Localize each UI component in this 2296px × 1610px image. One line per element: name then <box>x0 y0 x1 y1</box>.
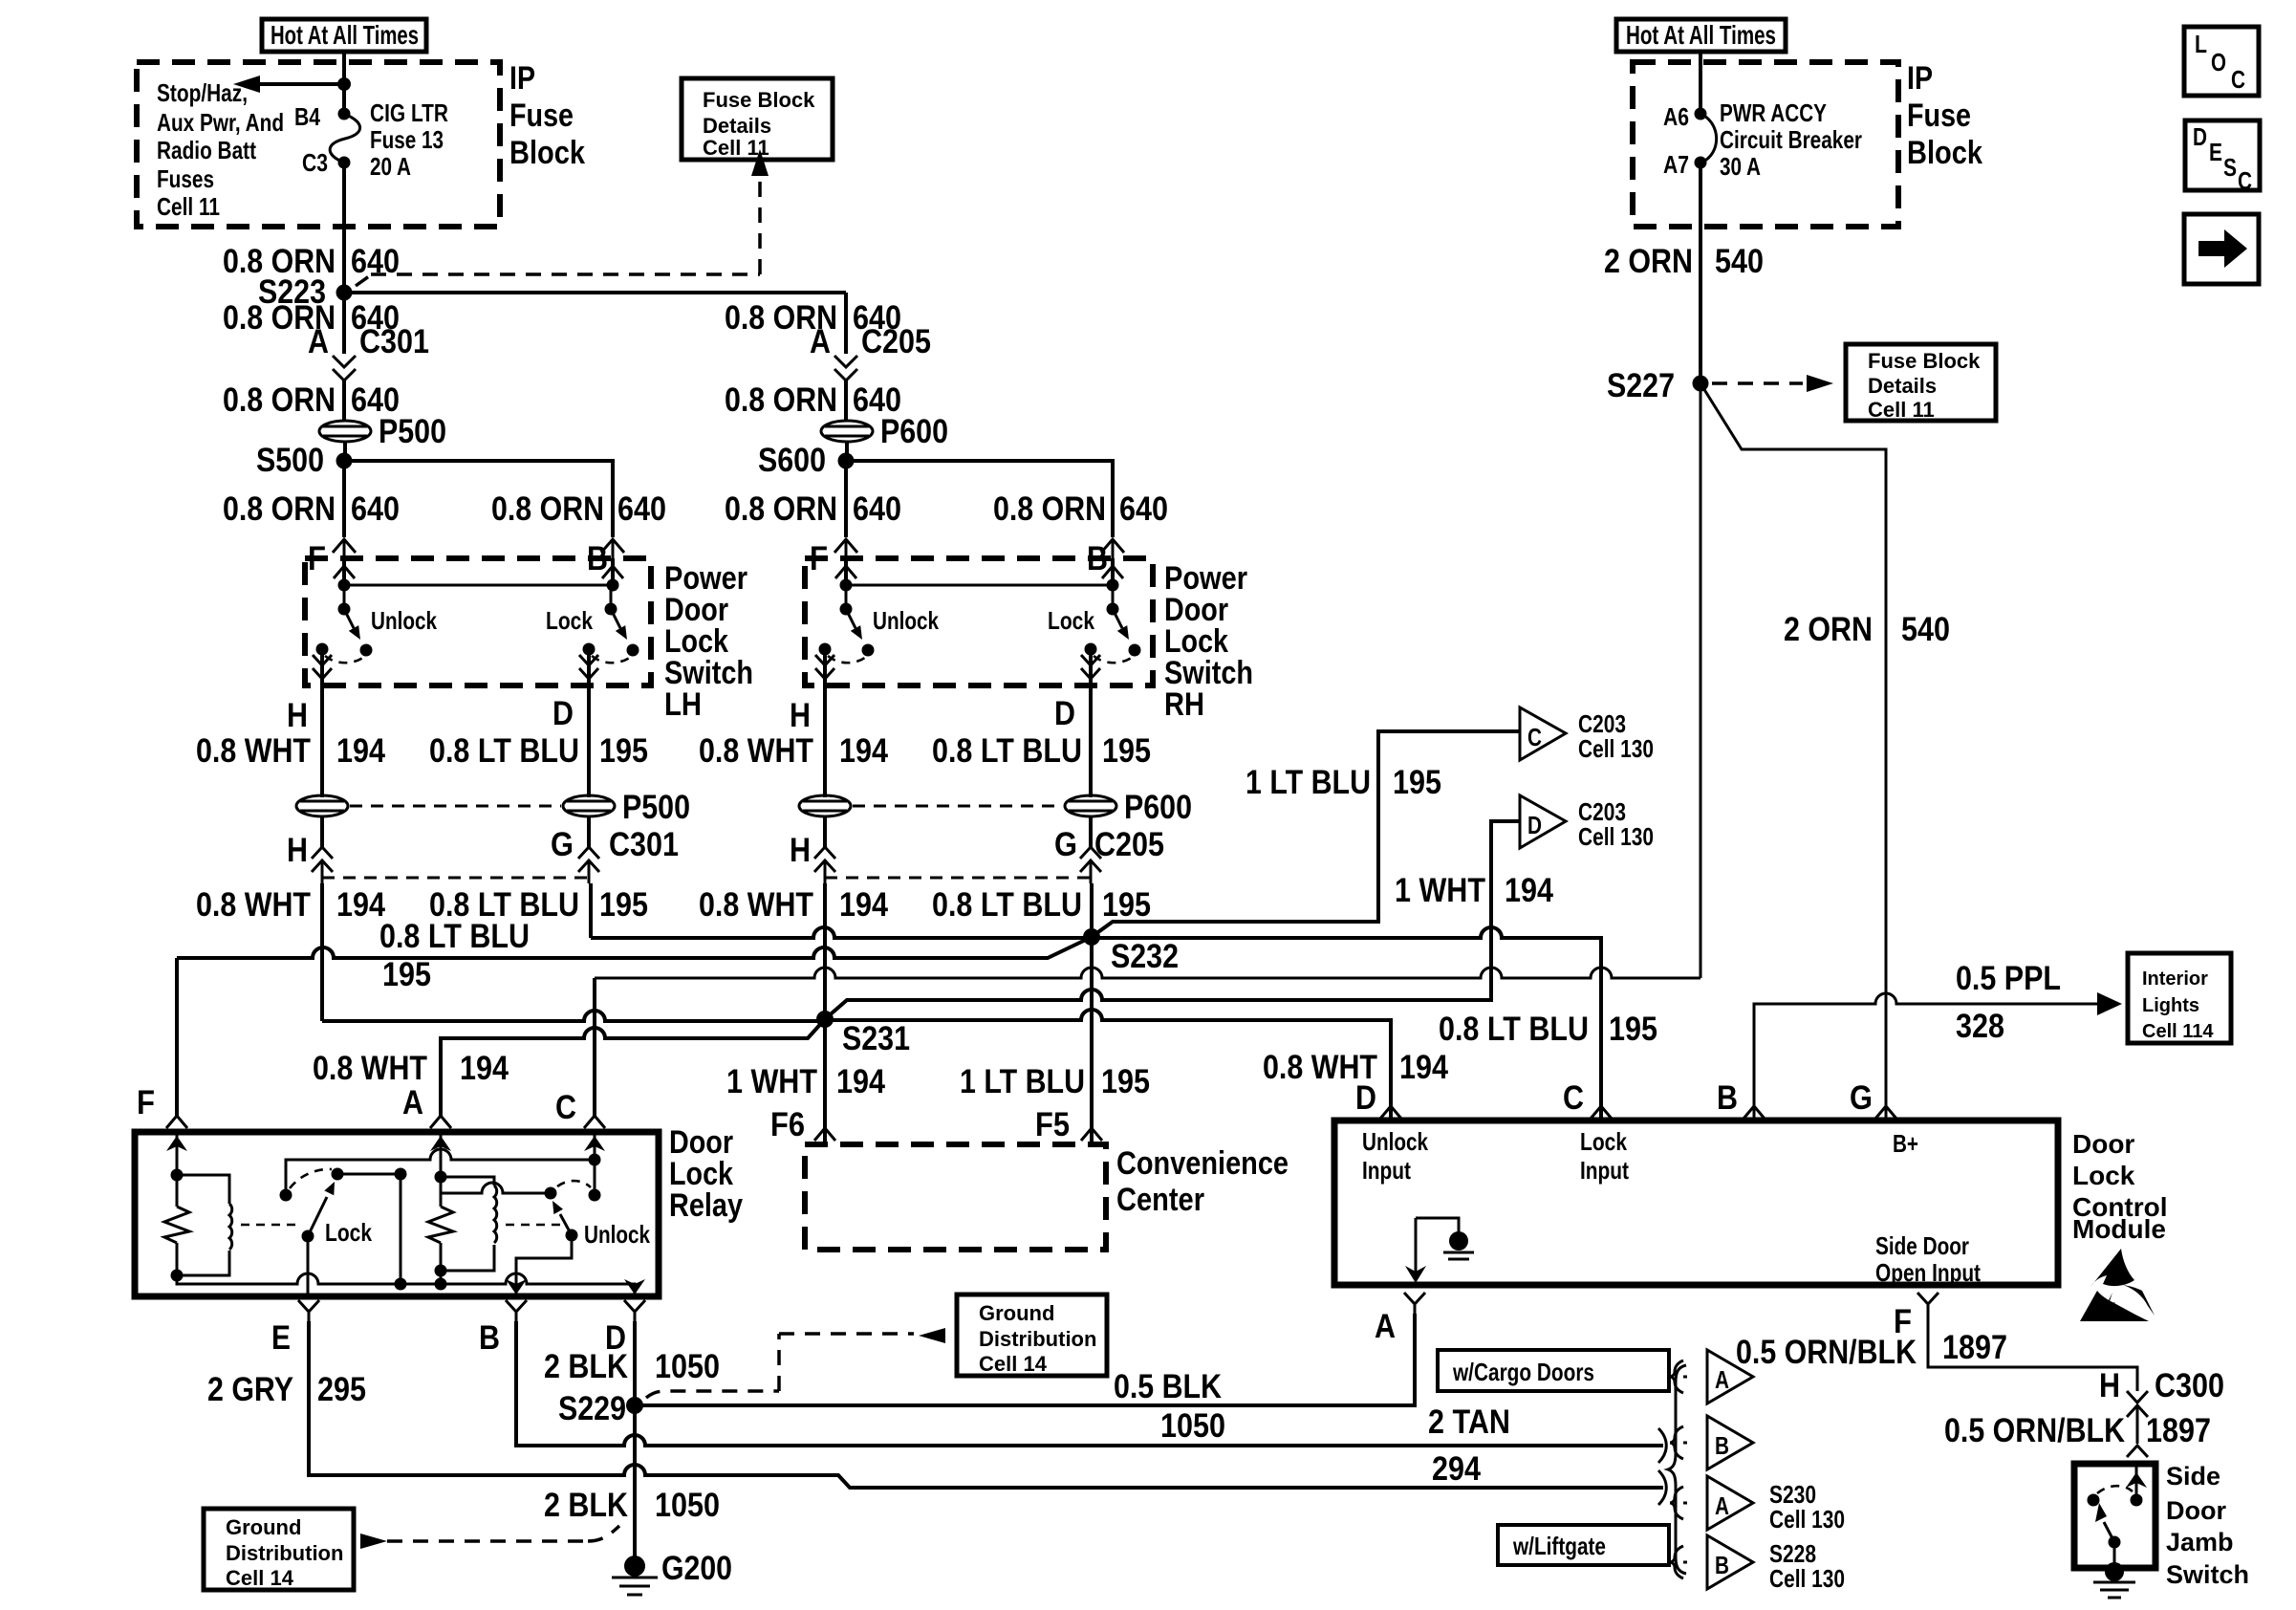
svg-text:0.5 ORN/BLK: 0.5 ORN/BLK <box>1736 1334 1917 1371</box>
svg-text:20 A: 20 A <box>370 152 411 181</box>
svg-text:Cell 130: Cell 130 <box>1578 822 1654 851</box>
svg-text:C: C <box>2238 166 2252 195</box>
dashed box: Power Door Lock Switch LH <box>305 558 651 685</box>
svg-text:Aux Pwr, And: Aux Pwr, And <box>157 108 284 137</box>
svg-text:0.5 PPL: 0.5 PPL <box>1956 960 2061 997</box>
chevron into LH switch B <box>601 539 624 558</box>
svg-text:Lock: Lock <box>546 606 593 635</box>
svg-text:Fuse: Fuse <box>1907 98 1971 134</box>
grommet P600 (main orange wire) <box>821 413 948 450</box>
relay pin A internal arrow and unlock coil <box>428 1132 497 1291</box>
svg-text:A: A <box>810 323 831 360</box>
svg-text:Distribution: Distribution <box>226 1541 343 1565</box>
svg-text:Fuse 13: Fuse 13 <box>370 125 444 154</box>
svg-text:B: B <box>479 1319 500 1357</box>
svg-text:Block: Block <box>1907 135 1982 171</box>
big brace <box>1668 1365 1686 1574</box>
label: 1 WHT 194 (D triangle feed) <box>1395 872 1553 909</box>
wire: S500 east to B leg <box>344 461 613 537</box>
svg-text:194: 194 <box>1399 1049 1448 1086</box>
label: Power Door Lock Switch LH <box>664 560 753 723</box>
svg-text:0.8 LT BLU: 0.8 LT BLU <box>932 886 1082 924</box>
label: 2 ORN 540 (above S227) <box>1604 243 1764 280</box>
chevron into module C <box>1591 1106 1612 1119</box>
relay unlock switch <box>442 1181 601 1296</box>
chevron into jamb switch <box>2127 1446 2148 1457</box>
wire: relay F drop <box>175 958 179 1117</box>
wire: breaker A7 down to S227 <box>1699 163 1702 383</box>
switch unlock RH <box>819 585 875 663</box>
svg-text:D: D <box>1054 695 1075 732</box>
svg-text:195: 195 <box>1102 886 1151 924</box>
svg-text:P600: P600 <box>880 413 948 450</box>
label row2: 0.8 LT BLU 195 (RH D) <box>932 886 1151 924</box>
svg-text:L: L <box>2195 30 2207 58</box>
triangle connector D (C203 Cell 130) <box>1520 795 1654 851</box>
svg-text:Fuse Block: Fuse Block <box>1868 349 1981 373</box>
svg-text:Lock: Lock <box>325 1218 372 1247</box>
svg-text:IP: IP <box>509 60 535 97</box>
svg-text:2 GRY: 2 GRY <box>207 1371 293 1408</box>
svg-text:A: A <box>402 1084 423 1121</box>
svg-text:Unlock: Unlock <box>371 606 437 635</box>
svg-text:0.8 WHT: 0.8 WHT <box>196 886 311 924</box>
chevron into convenience center F5 <box>1081 1128 1102 1141</box>
svg-text:194: 194 <box>836 1063 885 1100</box>
relay lock switch <box>280 1149 590 1291</box>
wire: C301 to P500 <box>342 381 346 421</box>
chevron into LH switch F <box>333 539 356 558</box>
label: 0.8 LT BLU 195 (module C feed) <box>1439 1011 1657 1048</box>
box: Ground Distribution Cell 14 (bottom left) <box>204 1509 354 1590</box>
dashed separator C205 <box>825 877 1091 880</box>
svg-text:30 A: 30 A <box>1720 152 1761 181</box>
wire L1: LH lock output to S232 (0.8 LT BLU 195) <box>591 927 1092 938</box>
svg-text:Unlock: Unlock <box>873 606 939 635</box>
chevron below relay D <box>624 1300 645 1321</box>
svg-text:P600: P600 <box>1124 789 1192 826</box>
wire L6: S231 to D triangle (1 WHT 194) <box>825 821 1520 1019</box>
svg-text:Open Input: Open Input <box>1875 1258 1981 1287</box>
wire: P600 to S600 <box>845 442 849 461</box>
chevron into module B <box>1744 1106 1765 1119</box>
label row2: 0.8 WHT 194 (LH H) <box>196 886 385 924</box>
box: DESC legend <box>2185 120 2260 195</box>
svg-text:328: 328 <box>1956 1008 2004 1045</box>
svg-text:G: G <box>1850 1079 1873 1117</box>
svg-text:H: H <box>2099 1367 2120 1404</box>
svg-text:B: B <box>1715 1431 1729 1460</box>
grommet P500 pair on H and D <box>296 789 690 826</box>
wire: S227 down (2 ORN to relay C) <box>1700 383 1702 978</box>
box: Side Door Jamb Switch <box>2074 1464 2155 1568</box>
svg-text:Fuses: Fuses <box>157 164 214 193</box>
svg-text:A6: A6 <box>1663 102 1689 131</box>
wire: Hot At All Times down to fuse B4 <box>342 52 346 114</box>
wire: RH H down through S231 to convenience center F6 <box>823 883 827 1144</box>
label: 0.8 ORN 640 (above C301) <box>223 299 400 337</box>
svg-text:Ground: Ground <box>979 1301 1054 1325</box>
label: Convenience Center <box>1116 1145 1289 1218</box>
connector C300 <box>2099 1367 2224 1444</box>
wire: LH D exit (lock output) <box>579 649 598 712</box>
wire: relay E output (2 GRY 295) <box>309 1321 1663 1488</box>
label: 0.8 ORN 640 (F leg) <box>223 490 400 528</box>
svg-text:IP: IP <box>1907 60 1933 97</box>
label: 0.8 ORN 640 (above S223) <box>223 243 400 280</box>
svg-text:Door: Door <box>2072 1129 2134 1159</box>
relay pin F internal arrow and lock coil <box>164 1132 232 1282</box>
svg-text:C: C <box>1527 723 1542 751</box>
svg-text:2 ORN: 2 ORN <box>1604 243 1693 280</box>
wire: fuse C3 down out of fuse block to S223 <box>342 163 346 293</box>
svg-text:A: A <box>1715 1365 1729 1394</box>
relay pin C internal: junction dots on 1213 wire <box>584 1132 605 1195</box>
svg-text:Side Door: Side Door <box>1875 1231 1969 1260</box>
node S500 <box>256 442 353 479</box>
svg-text:Details: Details <box>1868 374 1937 398</box>
svg-text:H: H <box>790 832 811 869</box>
wire: LH D down to P500 grommet <box>587 712 591 797</box>
wire: corner down to C205 <box>844 293 848 354</box>
label: Door Lock Control Module <box>2072 1129 2168 1244</box>
svg-text:C205: C205 <box>861 323 931 360</box>
relay pin D internal arrow <box>624 1279 645 1295</box>
svg-text:B: B <box>1715 1551 1729 1579</box>
svg-text:F6: F6 <box>770 1106 805 1143</box>
wire: S231 east to module D corner <box>825 1010 1391 1120</box>
label: 0.8 WHT 194 (relay A feed) <box>313 1050 509 1087</box>
svg-text:0.8 WHT: 0.8 WHT <box>699 732 813 770</box>
label: IP Fuse Block (left) <box>509 60 585 171</box>
circuit breaker PWR ACCY 30A <box>1695 108 1717 169</box>
svg-text:194: 194 <box>460 1050 509 1087</box>
svg-text:640: 640 <box>853 490 901 528</box>
svg-text:S500: S500 <box>256 442 324 479</box>
svg-text:Cell 14: Cell 14 <box>979 1352 1048 1376</box>
label: 0.8 ORN 640 (above P500) <box>223 381 400 419</box>
chevron into relay C <box>584 1116 605 1128</box>
svg-text:Circuit Breaker: Circuit Breaker <box>1720 125 1862 154</box>
wire: LH H down to P500 grommet <box>320 712 324 797</box>
svg-text:Cell 130: Cell 130 <box>1769 1505 1845 1534</box>
svg-text:0.8 ORN: 0.8 ORN <box>491 490 604 528</box>
svg-text:C301: C301 <box>359 323 429 360</box>
svg-text:C300: C300 <box>2155 1367 2224 1404</box>
svg-text:294: 294 <box>1432 1450 1481 1488</box>
wire: S227 diagonal branch to module G <box>1700 383 1886 1120</box>
label G C205 <box>1054 826 1164 863</box>
jamb switch internals <box>2088 1464 2148 1598</box>
svg-text:0.8 LT BLU: 0.8 LT BLU <box>1439 1011 1589 1048</box>
triangle connector C (C203 Cell 130) <box>1520 707 1654 763</box>
wire L2: relay F feed (0.8 LT BLU 195) <box>177 937 1092 958</box>
wire L4: relay C to S227 2 ORN line <box>595 968 1700 978</box>
label: 0.8 WHT 194 (module D feed) <box>1263 1049 1448 1086</box>
dashed box: Power Door Lock Switch RH <box>805 558 1153 685</box>
svg-text:C: C <box>1563 1079 1584 1117</box>
label: Side Door Jamb Switch <box>2166 1462 2249 1589</box>
label: IP Fuse Block (right) <box>1907 60 1982 171</box>
svg-text:B: B <box>1717 1079 1738 1117</box>
svg-text:PWR ACCY: PWR ACCY <box>1720 98 1827 127</box>
wire: S223 down to C301 <box>342 293 346 354</box>
box: Hot At All Times (left) <box>262 19 426 52</box>
wire: S223 horizontal to RH branch <box>344 291 846 294</box>
chevron into convenience center F6 <box>814 1128 835 1141</box>
svg-text:Hot At All Times: Hot At All Times <box>1626 20 1776 50</box>
svg-text:CIG LTR: CIG LTR <box>370 98 448 127</box>
node S229 <box>558 1390 643 1427</box>
svg-text:G200: G200 <box>661 1550 732 1587</box>
chevron into RH switch F <box>834 539 857 558</box>
svg-text:Fuse Block: Fuse Block <box>703 88 815 112</box>
svg-text:195: 195 <box>382 956 431 993</box>
svg-text:Lock: Lock <box>1580 1127 1627 1156</box>
wire: S229 east to module A riser (0.5 BLK 1050) <box>635 1314 1415 1405</box>
wire: below P500 to C301 chevrons <box>322 816 589 847</box>
wire: S600 east to B leg <box>846 461 1113 537</box>
box: Fuse Block Details Cell 11 (right) <box>1846 344 1996 422</box>
node S232 <box>1083 928 1179 975</box>
label: 0.8 ORN 640 (B leg) <box>491 490 666 528</box>
svg-text:Cell 14: Cell 14 <box>226 1566 294 1590</box>
wire: S229 down to G200 <box>633 1405 637 1566</box>
switch unlock LH <box>316 585 373 663</box>
chevron below module F <box>1917 1293 1939 1314</box>
svg-text:540: 540 <box>1715 243 1764 280</box>
wire end paren (2 TAN upper) <box>1658 1428 1666 1463</box>
relay pin E drop from lock switch <box>307 1236 310 1296</box>
label row2: 0.8 LT BLU 195 (LH D) <box>429 886 648 924</box>
label row: 0.8 LT BLU 195 (LH D) <box>429 732 648 770</box>
grommet P500 (main orange wire) <box>319 413 446 450</box>
text: Side Door Open Input <box>1875 1231 1981 1287</box>
wire: internal top bus LH <box>338 579 619 592</box>
svg-text:C: C <box>555 1089 576 1126</box>
label: 0.8 ORN 640 (RH F leg) <box>725 490 901 528</box>
svg-text:D: D <box>1355 1079 1376 1117</box>
triangle ref T3 A (S230) <box>1670 1476 1845 1534</box>
wire: RH H down to P600 grommet <box>823 712 827 797</box>
svg-text:C3: C3 <box>302 148 328 177</box>
box: Door Lock Control Module <box>1334 1120 2058 1285</box>
svg-text:S229: S229 <box>558 1390 626 1427</box>
svg-text:195: 195 <box>599 732 648 770</box>
wire: S500 down F leg <box>342 461 346 537</box>
svg-text:A7: A7 <box>1663 150 1689 179</box>
svg-text:C205: C205 <box>1094 826 1164 863</box>
svg-text:0.8 ORN: 0.8 ORN <box>993 490 1106 528</box>
svg-text:195: 195 <box>1393 764 1441 801</box>
wire: S232 east to C203-C riser and module C (0.8 LT BLU) <box>1092 731 1601 1120</box>
relay pin B internal arrow <box>506 1279 527 1295</box>
svg-text:Switch: Switch <box>2166 1560 2249 1589</box>
connector chevrons C301 (H wire) <box>312 847 333 883</box>
svg-text:1 LT BLU: 1 LT BLU <box>960 1063 1085 1100</box>
wire: C205 to P600 <box>844 381 848 421</box>
ground G200 <box>612 1550 732 1595</box>
svg-text:194: 194 <box>336 886 385 924</box>
switch lock LH <box>583 585 639 663</box>
svg-text:2 BLK: 2 BLK <box>544 1348 628 1385</box>
svg-text:1050: 1050 <box>1160 1407 1225 1445</box>
label row2: 0.8 WHT 194 (RH H) <box>699 886 888 924</box>
svg-text:1050: 1050 <box>655 1348 720 1385</box>
svg-text:Lights: Lights <box>2142 995 2199 1016</box>
svg-text:D: D <box>1527 811 1542 839</box>
label: 0.8 ORN 640 (RH B leg) <box>993 490 1168 528</box>
svg-text:640: 640 <box>1119 490 1168 528</box>
dashed box: IP Fuse Block left <box>137 62 500 227</box>
svg-text:0.8 ORN: 0.8 ORN <box>223 490 336 528</box>
box: Hot At All Times (right) <box>1616 19 1786 52</box>
svg-text:0.8 LT BLU: 0.8 LT BLU <box>379 918 530 955</box>
module internal ground <box>1405 1218 1474 1283</box>
connector chevrons C205 (G wire) <box>1080 847 1101 883</box>
wire: LH D down to corner L1 <box>589 883 593 938</box>
svg-text:640: 640 <box>617 490 666 528</box>
svg-text:Unlock: Unlock <box>584 1220 650 1249</box>
dashed reference: ground distribution to G200 wire <box>360 1526 619 1549</box>
wire: RH H exit (unlock output) <box>815 649 834 712</box>
svg-text:1 WHT: 1 WHT <box>726 1063 817 1100</box>
box: Fuse Block Details Cell 11 (top middle) <box>682 78 833 160</box>
wire: LH B entry with arrow <box>602 558 623 585</box>
svg-text:640: 640 <box>351 490 400 528</box>
connector A C301 <box>308 323 429 381</box>
triangle ref T4 B (S228) <box>1670 1535 1845 1593</box>
chevron below module A <box>1404 1293 1425 1314</box>
box: arrow legend <box>2184 214 2259 284</box>
svg-text:0.8 WHT: 0.8 WHT <box>699 886 813 924</box>
svg-text:0.5 ORN/BLK: 0.5 ORN/BLK <box>1944 1412 2125 1449</box>
wire L5: S231 to relay A (0.8 WHT 194) <box>441 1019 825 1117</box>
svg-text:H: H <box>790 697 811 734</box>
chevron into module G <box>1875 1106 1896 1119</box>
node S227 <box>1607 367 1709 404</box>
svg-text:Cell 130: Cell 130 <box>1578 734 1654 763</box>
svg-text:0.8 LT BLU: 0.8 LT BLU <box>429 732 579 770</box>
svg-text:1 LT BLU: 1 LT BLU <box>1245 764 1371 801</box>
dashed linkage lock coil <box>241 1224 302 1227</box>
label: 0.8 ORN 640 (above P600) <box>725 381 901 419</box>
label row: 0.8 WHT 194 (RH H) <box>699 732 888 770</box>
wire: P500 to S500 <box>343 442 347 461</box>
svg-text:w/Cargo Doors: w/Cargo Doors <box>1452 1358 1594 1386</box>
svg-text:A: A <box>1375 1308 1396 1345</box>
wire: LH H exit (unlock output) <box>313 649 332 712</box>
text: PWR ACCY Circuit Breaker 30 A <box>1720 98 1862 181</box>
svg-text:Stop/Haz,: Stop/Haz, <box>157 78 248 107</box>
svg-text:C: C <box>2231 65 2245 94</box>
wire: RH F entry with arrow <box>835 558 856 585</box>
label: 2 GRY 295 <box>207 1371 366 1408</box>
svg-text:194: 194 <box>336 732 385 770</box>
svg-text:Cell 11: Cell 11 <box>703 136 769 160</box>
svg-text:1897: 1897 <box>2146 1412 2211 1449</box>
svg-text:194: 194 <box>1505 872 1553 909</box>
label: 2 BLK 1050 (lower) <box>544 1487 720 1524</box>
svg-text:D: D <box>552 695 574 732</box>
label: 1 LT BLU 195 (C triangle feed) <box>1245 764 1441 801</box>
svg-text:Unlock: Unlock <box>1362 1127 1428 1156</box>
dashed box: IP Fuse Block right <box>1633 62 1898 227</box>
wire: RH D exit (lock output) <box>1081 649 1100 712</box>
svg-text:E: E <box>2209 138 2222 166</box>
svg-text:1 WHT: 1 WHT <box>1395 872 1485 909</box>
svg-text:A: A <box>308 323 329 360</box>
svg-text:P500: P500 <box>379 413 446 450</box>
svg-text:E: E <box>271 1319 291 1357</box>
box: LOC legend <box>2184 27 2259 96</box>
svg-text:1897: 1897 <box>1942 1329 2007 1366</box>
box: w/Cargo Doors <box>1438 1350 1669 1391</box>
wire: relay B output (2 TAN 294) <box>516 1321 1663 1446</box>
svg-text:Distribution: Distribution <box>979 1327 1096 1351</box>
node S600 <box>758 442 855 479</box>
svg-text:Cell 11: Cell 11 <box>157 192 220 221</box>
svg-text:0.8 LT BLU: 0.8 LT BLU <box>932 732 1082 770</box>
fuse CIG LTR (S-curve between B4 and C3) <box>330 108 360 169</box>
box: Interior Lights Cell 114 <box>2128 953 2231 1043</box>
svg-text:RH: RH <box>1164 686 1204 723</box>
wire: RH D down through S232 to convenience center F5 <box>1090 883 1094 1144</box>
box: Door Lock Relay <box>135 1132 659 1296</box>
svg-text:H: H <box>287 832 308 869</box>
svg-text:D: D <box>2193 122 2207 151</box>
svg-text:A: A <box>1715 1491 1729 1520</box>
grommet P600 pair on H and D <box>799 789 1192 826</box>
label: 0.8 ORN 640 (above C205) <box>725 299 901 337</box>
svg-text:2 BLK: 2 BLK <box>544 1487 628 1524</box>
wire end paren (2 TAN lower) <box>1658 1470 1666 1505</box>
svg-text:G: G <box>551 826 574 863</box>
svg-text:195: 195 <box>1609 1011 1657 1048</box>
chevron into relay F <box>166 1116 187 1128</box>
dashed reference: S227 to Fuse Block Details <box>1712 375 1833 392</box>
chevron into RH switch B <box>1101 539 1124 558</box>
svg-text:Door: Door <box>2166 1496 2226 1525</box>
svg-text:0.8 ORN: 0.8 ORN <box>223 381 336 419</box>
wire: RH D down to P600 grommet <box>1089 712 1093 797</box>
svg-text:Details: Details <box>703 114 771 138</box>
label G C301 <box>551 826 679 863</box>
svg-text:Interior: Interior <box>2142 968 2208 990</box>
dashed reference: S229 to ground distribution <box>646 1328 945 1398</box>
wire: PPL line from module B riser to interior lights <box>1754 992 2122 1120</box>
wire: S600 down F leg <box>844 461 848 537</box>
label: 2 ORN 540 (module G feed) <box>1784 611 1950 648</box>
wire: Hot At All Times down to breaker A6 <box>1699 52 1702 114</box>
arrow: feed to Stop/Haz fuses <box>233 76 351 93</box>
label: 2 BLK 1050 (upper) <box>544 1348 720 1385</box>
svg-text:B+: B+ <box>1893 1129 1918 1158</box>
svg-text:w/Liftgate: w/Liftgate <box>1512 1532 1606 1560</box>
label: Power Door Lock Switch RH <box>1164 560 1253 723</box>
ESD symbol <box>2080 1249 2155 1321</box>
svg-text:195: 195 <box>599 886 648 924</box>
wire: LH H down to corner L3 <box>320 883 324 1021</box>
svg-text:S600: S600 <box>758 442 826 479</box>
svg-text:S: S <box>2223 153 2237 182</box>
svg-text:0.8 WHT: 0.8 WHT <box>196 732 311 770</box>
label: 1 WHT 194 (F6) <box>726 1063 885 1100</box>
svg-text:Module: Module <box>2072 1214 2166 1244</box>
label row: 0.8 WHT 194 (LH H) <box>196 732 385 770</box>
svg-text:Ground: Ground <box>226 1515 301 1539</box>
wire: relay D output to S229 <box>633 1321 637 1405</box>
